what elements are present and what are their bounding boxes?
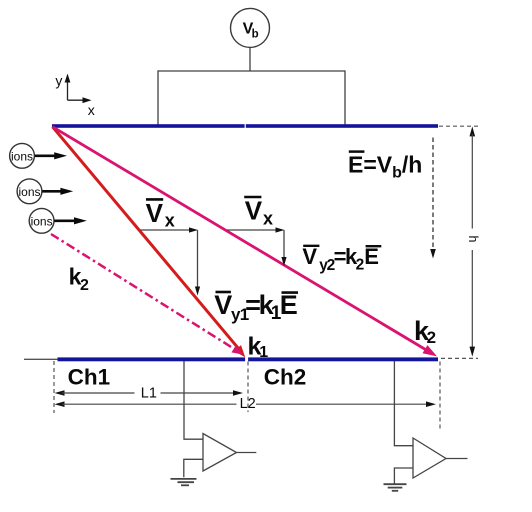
svg-text:x: x: [263, 209, 273, 229]
bottom plate electrode Ch1: [58, 357, 246, 361]
Vx velocity decomposition arrows (k2): [227, 227, 287, 266]
op-amp U2 output wire: [446, 458, 468, 460]
dashed extension line right: [439, 362, 441, 432]
svg-text:x: x: [165, 210, 175, 230]
wire stem from Vb: [249, 47, 251, 71]
bottom plate lead-in wire: [24, 358, 58, 360]
svg-text:L2: L2: [240, 396, 256, 412]
red ion trajectory k1 arrow: [53, 127, 246, 357]
svg-text:ions: ions: [18, 185, 40, 199]
dash-dot ion trajectory k2 (lower): [51, 234, 243, 355]
y axis: [67, 81, 69, 101]
top plate electrode right segment: [246, 124, 438, 128]
Vx velocity decomposition arrows (k1): [141, 227, 201, 295]
top plate electrode left segment: [52, 124, 245, 128]
ion source 2: [17, 179, 73, 204]
svg-text:E: E: [280, 290, 298, 320]
svg-text:b: b: [252, 29, 259, 41]
dashed extension line left: [53, 361, 55, 413]
op-amp U1 output wire: [237, 452, 257, 454]
wire top bus: [158, 70, 345, 72]
svg-text:E: E: [364, 244, 379, 269]
op-amp U2 ground wire: [394, 468, 413, 484]
label Vy2 = k2 E: [302, 244, 381, 274]
label k2 (right): [414, 316, 436, 347]
ground 2: [384, 484, 407, 491]
svg-text:L1: L1: [141, 385, 157, 401]
label Vy1 = k1 E: [214, 290, 298, 324]
label k1: [248, 333, 269, 361]
svg-text:2: 2: [80, 277, 89, 294]
ground 1: [171, 479, 197, 485]
svg-text:y: y: [55, 72, 62, 88]
dashed extension line center: [247, 362, 249, 413]
ion source 3: [29, 208, 87, 233]
svg-text:V: V: [302, 244, 317, 269]
dashed leader bottom right: [441, 357, 478, 359]
svg-text:Ch1: Ch1: [68, 365, 111, 390]
svg-text:2: 2: [356, 256, 365, 273]
svg-text:V: V: [146, 198, 164, 228]
wire left leg: [157, 70, 159, 124]
magenta ion trajectory k2 arrow: [53, 127, 438, 357]
voltage source Vb circle: [231, 8, 270, 47]
op-amp U2: [413, 438, 446, 478]
dashed leader top right: [439, 125, 478, 127]
svg-text:ions: ions: [11, 149, 33, 163]
op-amp U1 ground wire: [184, 459, 203, 477]
label Vb: [243, 21, 259, 41]
wire Ch2 to op-amp U2: [394, 361, 413, 446]
label E = Vb/h: [348, 152, 422, 182]
dimension h: [470, 126, 476, 356]
wire Ch1 to op-amp U1: [184, 361, 203, 439]
dimension L2: [55, 401, 437, 407]
x axis: [68, 99, 85, 101]
label Vx (right): [244, 195, 273, 228]
svg-text:V: V: [214, 290, 232, 320]
svg-text:V: V: [245, 195, 263, 225]
svg-text:ions: ions: [31, 214, 53, 228]
ion source 1: [10, 143, 67, 168]
svg-text:x: x: [88, 102, 95, 118]
label k2 (left, dash-dot trajectory): [69, 263, 89, 294]
dimension L1: [55, 390, 244, 396]
wire right leg: [344, 70, 346, 124]
op-amp U1: [203, 434, 237, 472]
svg-text:E=Vb/h: E=Vb/h: [348, 152, 422, 182]
bottom plate electrode Ch2: [248, 357, 438, 361]
svg-text:Ch2: Ch2: [264, 365, 307, 390]
svg-text:h: h: [466, 236, 480, 243]
dashed E field arrow: [430, 138, 436, 259]
svg-text:2: 2: [427, 328, 436, 347]
label Vx (left): [146, 198, 175, 231]
coordinate axes: [65, 74, 92, 104]
